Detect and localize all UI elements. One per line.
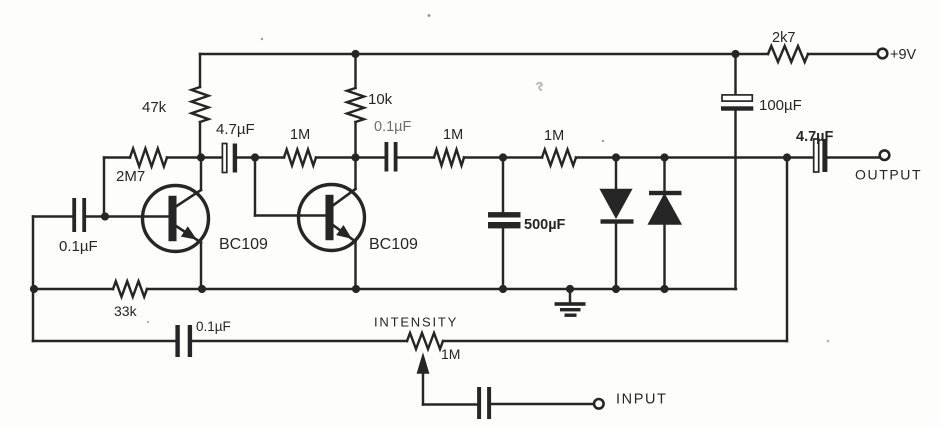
svg-text:4.7µF: 4.7µF — [796, 129, 834, 145]
svg-text:100µF: 100µF — [759, 97, 802, 114]
svg-text:+9V: +9V — [890, 47, 917, 63]
svg-text:0.1µF: 0.1µF — [374, 119, 412, 135]
svg-text:BC109: BC109 — [219, 236, 268, 253]
svg-text:0.1µF: 0.1µF — [196, 319, 231, 334]
svg-text:1M: 1M — [441, 346, 460, 362]
svg-text:INPUT: INPUT — [616, 392, 668, 408]
svg-text:500µF: 500µF — [524, 217, 566, 233]
svg-text:2M7: 2M7 — [116, 168, 145, 185]
svg-text:1M: 1M — [544, 128, 564, 144]
svg-text:1M: 1M — [290, 127, 310, 143]
svg-text:2k7: 2k7 — [772, 30, 795, 46]
svg-text:0.1µF: 0.1µF — [59, 238, 98, 255]
svg-text:4.7µF: 4.7µF — [216, 121, 255, 138]
svg-text:10k: 10k — [368, 91, 393, 108]
svg-text:1M: 1M — [443, 127, 463, 143]
svg-text:OUTPUT: OUTPUT — [855, 167, 922, 183]
svg-text:BC109: BC109 — [369, 236, 418, 253]
svg-text:47k: 47k — [142, 99, 167, 116]
svg-text:33k: 33k — [114, 303, 138, 319]
svg-text:INTENSITY: INTENSITY — [374, 315, 458, 330]
